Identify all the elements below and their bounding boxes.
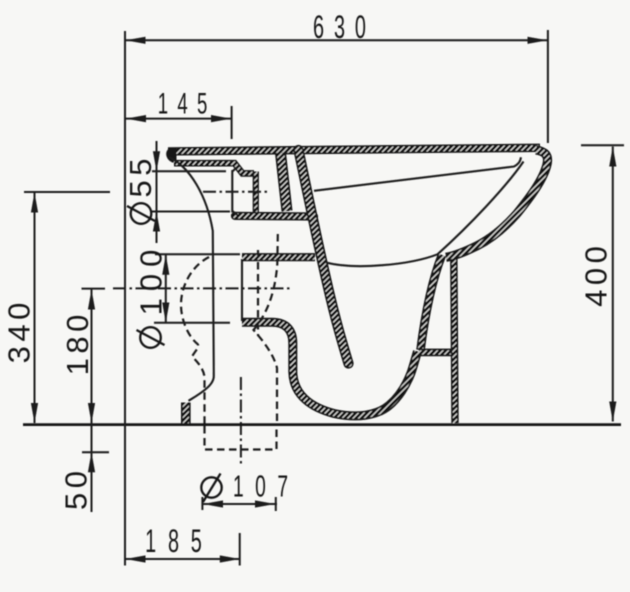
extension line: right of 630 bbox=[547, 30, 549, 143]
extension line: bottom of diameter 100 bbox=[154, 322, 230, 324]
section cut: spigot floor band bbox=[235, 212, 314, 221]
svg-text:400: 400 bbox=[579, 242, 614, 307]
section cut: pedestal rear leg bbox=[454, 255, 455, 423]
extension line: left datum bbox=[124, 31, 126, 566]
hidden: outlet spigot projection below floor bbox=[205, 426, 277, 450]
dimension line 630 bbox=[126, 39, 548, 41]
section cut: rim left end hook bbox=[166, 148, 176, 163]
svg-text:180: 180 bbox=[60, 310, 95, 375]
arrowhead: 50 bottom bbox=[88, 452, 95, 472]
symbol: diameter sign of 107 bbox=[201, 477, 221, 497]
edge: sump water line bbox=[326, 254, 438, 266]
section cut: rim underside band with jog bbox=[174, 163, 254, 173]
dimension line 185 bbox=[126, 558, 240, 560]
arrowhead: 185 left bbox=[126, 555, 146, 562]
svg-text:145: 145 bbox=[158, 87, 217, 121]
arrowhead: 185 right bbox=[220, 555, 240, 562]
svg-text:630: 630 bbox=[313, 9, 376, 45]
edge: bowl inner surface bbox=[438, 162, 524, 255]
svg-text:55: 55 bbox=[123, 154, 158, 197]
svg-text:50: 50 bbox=[59, 467, 94, 510]
svg-text:100: 100 bbox=[134, 243, 169, 316]
dimension line 180 and 50 bbox=[91, 289, 93, 512]
dimension line 400 bbox=[612, 147, 614, 422]
section cut: flush jet channel wall bbox=[299, 150, 349, 364]
edge: inlet box left edge bbox=[241, 259, 243, 321]
arrowhead: 180 bottom bbox=[88, 403, 95, 423]
arrowhead: diameter 55 top bbox=[153, 151, 160, 171]
hidden: sump rear contour and outlet left side bbox=[181, 257, 209, 424]
section cut: flush spigot bore end wall bbox=[253, 172, 259, 213]
section cut: pedestal front leg bbox=[421, 255, 443, 350]
arrowhead: 180 top bbox=[88, 290, 95, 310]
arrowhead: diameter 107 right bbox=[255, 500, 275, 507]
arrowhead: 400 bottom bbox=[609, 402, 616, 422]
svg-text:107: 107 bbox=[233, 470, 299, 504]
symbol: diameter sign of 100 bbox=[140, 327, 161, 348]
centerline: flush spigot axis bbox=[203, 191, 268, 193]
section cut: inlet shelf band bbox=[242, 253, 315, 261]
section cut: bowl rear outer wall bbox=[446, 150, 548, 257]
arrowhead: diameter 55 bottom bbox=[153, 212, 160, 232]
arrowhead: diameter 100 bottom bbox=[162, 303, 169, 323]
arrowhead: 630 left bbox=[126, 37, 146, 44]
arrowhead: diameter 100 top bbox=[162, 255, 169, 275]
extension line: bottom of 50 bbox=[82, 451, 109, 453]
arrowhead: 630 right bbox=[528, 37, 548, 44]
edge: front outer profile bbox=[169, 157, 214, 401]
extension line: top of 400 bbox=[581, 144, 624, 146]
hidden: outlet right side bbox=[254, 234, 278, 424]
dimension line diameter 107 bbox=[202, 503, 277, 505]
arrowhead: diameter 107 left bbox=[203, 500, 223, 507]
arrowhead: 145 right bbox=[211, 115, 231, 122]
centerline: outlet axis bbox=[240, 377, 242, 464]
extension line: top of 180 bbox=[82, 288, 106, 290]
centerline: inlet hole axis bbox=[113, 287, 292, 289]
extension tick: right of diameter 107 bbox=[275, 497, 277, 511]
section cut: pedestal cross rib bbox=[419, 349, 456, 357]
section cut: spigot back wall bbox=[281, 153, 288, 211]
dimension line 145 bbox=[126, 118, 231, 120]
extension line: bottom of diameter 55 bbox=[152, 211, 230, 213]
arrowhead: 340 top bbox=[31, 193, 38, 213]
edge: spigot mouth bottom corner bbox=[232, 211, 238, 216]
dimension line 340 bbox=[34, 193, 36, 424]
arrowhead: 400 top bbox=[609, 147, 616, 167]
edge: spigot mouth top corner bbox=[232, 167, 237, 172]
hidden: flush downpipe edge bbox=[257, 250, 259, 336]
section cut: rim top band bbox=[168, 148, 540, 152]
section cut: front foot band bbox=[181, 403, 191, 424]
svg-text:185: 185 bbox=[145, 523, 213, 559]
edge: spigot mouth face bbox=[231, 170, 233, 213]
floor ground line bbox=[23, 423, 621, 426]
dimension line diameter 55 bbox=[156, 141, 158, 243]
extension line: top of diameter 100 bbox=[155, 253, 240, 255]
extension line: top of 340 bbox=[24, 191, 110, 193]
svg-text:340: 340 bbox=[2, 298, 37, 363]
arrowhead: 340 bottom bbox=[31, 403, 38, 423]
extension line: right of 185 bbox=[239, 533, 241, 566]
extension line: top of diameter 55 bbox=[152, 170, 226, 172]
edge: rim inner lip line bbox=[314, 157, 521, 191]
extension tick: left of diameter 107 bbox=[201, 497, 203, 510]
extension line: right of 145 bbox=[231, 106, 233, 139]
arrowhead: 145 left bbox=[126, 115, 146, 122]
symbol: diameter sign of 55 bbox=[131, 203, 152, 224]
section cut: sump bottom and trap U wall bbox=[242, 322, 418, 416]
dimension line diameter 100 bbox=[165, 255, 167, 323]
